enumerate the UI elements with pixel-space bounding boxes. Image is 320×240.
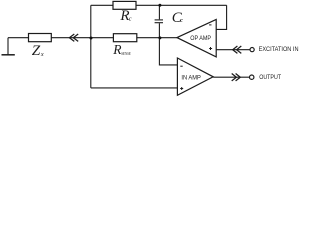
svg-text:SENSE: SENSE [121, 51, 131, 56]
svg-text:Z: Z [32, 42, 41, 59]
svg-text:OUTPUT: OUTPUT [259, 74, 281, 81]
svg-text:IN AMP: IN AMP [181, 75, 201, 82]
svg-text:x: x [40, 51, 44, 58]
svg-text:c: c [180, 17, 183, 24]
svg-text:EXCITATION IN: EXCITATION IN [259, 46, 299, 53]
svg-text:c: c [129, 15, 132, 22]
svg-text:OP AMP: OP AMP [190, 35, 211, 42]
